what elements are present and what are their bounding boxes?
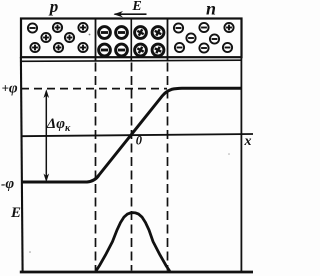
hole in n	[224, 23, 233, 32]
svg-text:E: E	[10, 205, 21, 221]
electron e3	[186, 33, 195, 42]
contact potential arrow	[44, 89, 50, 182]
hole h3	[41, 33, 50, 42]
junction centre plane line	[130, 20, 132, 62]
right border line	[240, 57, 242, 273]
hole h6	[54, 43, 63, 52]
graph frame top line	[20, 60, 242, 61]
electron e4	[210, 34, 219, 43]
semiconductor bar frame	[21, 19, 242, 58]
svg-text:+φ: +φ	[2, 81, 18, 97]
field direction arrow	[114, 11, 147, 17]
donor ion D1	[135, 27, 147, 39]
svg-text:n: n	[206, 0, 216, 19]
dashed boundary line right	[167, 63, 169, 271]
electron e6	[199, 43, 208, 52]
hole h2	[78, 23, 87, 32]
donor ion D3	[135, 44, 147, 56]
bottom base line	[20, 271, 253, 274]
x axis	[21, 134, 253, 136]
acceptor ion A2	[116, 27, 128, 39]
svg-text:p: p	[48, 0, 59, 16]
donor ion D4	[152, 44, 164, 56]
dashed +phi level line	[21, 88, 167, 90]
junction boundary left divider	[95, 19, 97, 62]
hole h4	[65, 33, 74, 42]
dashed centre line	[131, 63, 133, 271]
n-region carriers	[174, 23, 234, 53]
electron e7	[223, 43, 232, 52]
hole h7	[78, 43, 87, 52]
acceptor ion A3	[99, 44, 111, 56]
svg-text:-φ: -φ	[1, 176, 14, 192]
electron in p	[28, 23, 37, 32]
svg-text:E: E	[131, 0, 141, 14]
hole h1	[53, 23, 62, 32]
acceptor ion A4	[116, 44, 128, 56]
potential axis (left vertical)	[21, 57, 23, 273]
svg-text:0: 0	[136, 134, 143, 148]
depletion layer ions	[99, 27, 164, 56]
electron e5	[175, 43, 184, 52]
svg-text:x: x	[244, 134, 252, 149]
field magnitude bell curve	[96, 213, 170, 272]
potential curve	[21, 88, 241, 182]
hole h5	[30, 43, 39, 52]
dashed boundary line left	[95, 63, 97, 271]
p-region carriers	[28, 23, 88, 52]
electron e1	[174, 23, 183, 32]
electron e2	[199, 23, 208, 32]
donor ion D2	[152, 27, 164, 39]
junction boundary right divider	[167, 19, 169, 62]
acceptor ion A1	[99, 27, 111, 39]
